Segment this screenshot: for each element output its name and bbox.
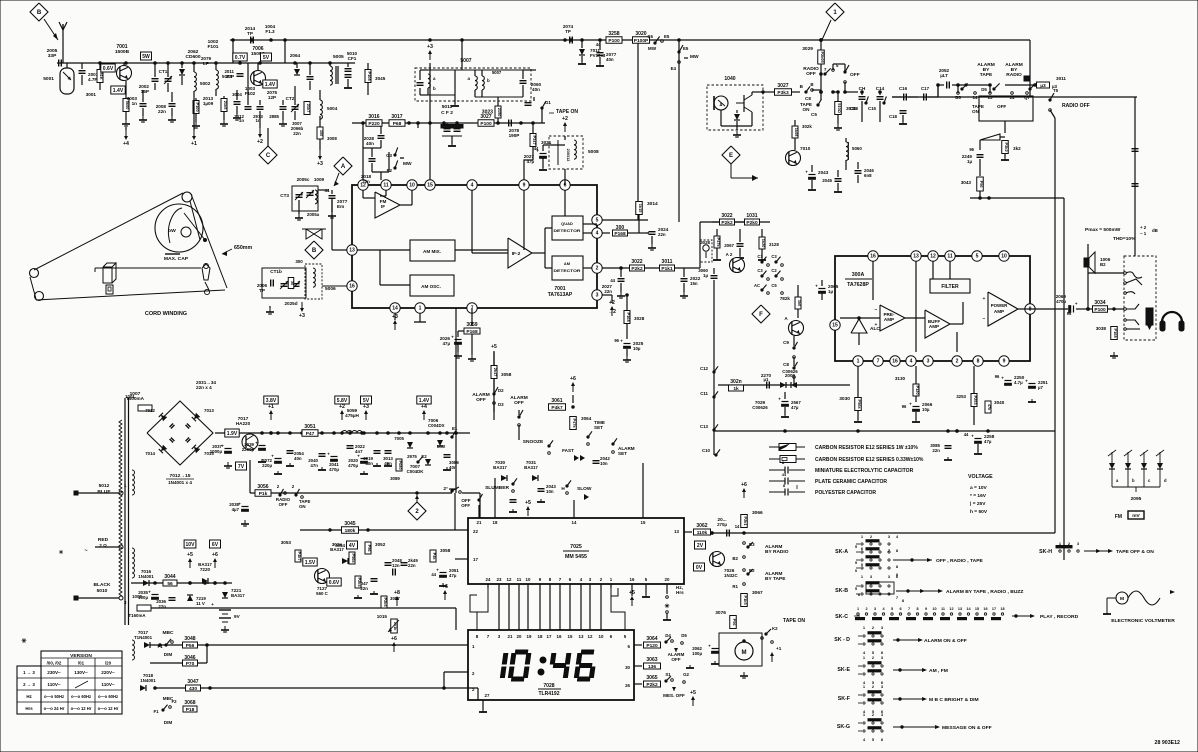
capacitor 2251 (1029, 383, 1036, 385)
resistor 3060 P47k vert (570, 417, 577, 430)
svg-text:THD=10%: THD=10% (1113, 236, 1136, 242)
wire supply row y433 (215, 432, 470, 434)
label 1.4V boxed 7006 (263, 80, 277, 88)
svg-text:B2: B2 (1100, 262, 1106, 267)
junction dots mic row (820, 91, 823, 94)
svg-text:Em: Em (337, 204, 344, 209)
svg-text:TAPE ON: TAPE ON (783, 618, 805, 624)
svg-text:16: 16 (557, 634, 562, 639)
svg-text:1: 1 (857, 359, 860, 365)
resistor 3056 P1k (255, 490, 271, 497)
svg-text:8: 8 (977, 359, 980, 365)
svg-text:22n x 4: 22n x 4 (196, 385, 212, 390)
svg-text:✳: ✳ (59, 549, 64, 556)
svg-text:3066: 3066 (752, 510, 763, 516)
svg-text:MW: MW (437, 444, 446, 449)
capacitor 2040 47n (319, 453, 326, 455)
svg-text:+: + (148, 590, 151, 595)
resistor 3038 (1111, 327, 1118, 340)
svg-text:3056: 3056 (257, 484, 268, 490)
capacitor 2005 33P (58, 60, 60, 67)
svg-text:C: C (266, 153, 271, 159)
svg-text:4V: 4V (349, 543, 356, 549)
svg-text:22n: 22n (658, 232, 666, 237)
capacitor 2077 40n top (597, 52, 604, 54)
svg-text:PLATE CERAMIC CAPACITOR: PLATE CERAMIC CAPACITOR (815, 479, 887, 485)
svg-text:6V: 6V (212, 542, 219, 548)
capacitor 2028 40n (378, 135, 385, 137)
wire psu y663 (150, 662, 207, 664)
svg-text:MW: MW (648, 46, 657, 51)
junction dots right rail (937, 84, 940, 87)
IC2 pin 1 (853, 356, 863, 366)
transistor 7001 (117, 66, 132, 81)
jack plug (1146, 308, 1153, 325)
svg-text:18: 18 (538, 634, 543, 639)
resistor 3058 mid (430, 550, 436, 562)
svg-text:30: 30 (625, 665, 630, 670)
svg-text:3130: 3130 (895, 376, 906, 381)
cord winding drum spoke (184, 213, 205, 240)
capacitor C16 (903, 94, 905, 101)
svg-text:3089: 3089 (390, 476, 400, 481)
svg-text:+6: +6 (741, 482, 747, 488)
coil 5060 (846, 142, 848, 147)
svg-text:dB: dB (1152, 228, 1158, 233)
svg-text:+2: +2 (257, 139, 263, 145)
resistor 3008 (317, 127, 323, 139)
svg-text:15n: 15n (690, 281, 698, 286)
capacitor 2042 10n (593, 460, 600, 462)
resistor 3045 entry (365, 70, 371, 83)
svg-text:T5: T5 (1053, 88, 1059, 93)
resistor 3047 430 (186, 685, 201, 691)
svg-text:/20: /20 (105, 661, 112, 666)
contacts alarm row right (1005, 84, 1035, 86)
svg-text:4: 4 (596, 231, 599, 237)
cord bracket part (103, 267, 112, 283)
resistor 3067 (741, 594, 748, 607)
wire right bus x1055 down (1054, 118, 1056, 533)
wire top supply rail y40 (230, 39, 1030, 41)
svg-text:1N4001: 1N4001 (140, 678, 156, 683)
motor enclosure (719, 633, 762, 666)
svg-text:+1: +1 (191, 141, 197, 147)
svg-text:BA317: BA317 (198, 562, 212, 567)
capacitor 2069 470u (1030, 308, 1068, 310)
svg-text:33P: 33P (48, 53, 57, 59)
cord left corner pulleys (30, 269, 39, 278)
svg-text:MINIATURE ELECTROLYTIC CAPAC: MINIATURE ELECTROLYTIC CAPACITOR (815, 468, 914, 474)
resistor 3030 P56k (855, 398, 862, 411)
svg-text:P2k4: P2k4 (357, 578, 362, 588)
svg-text:5008: 5008 (588, 149, 599, 155)
svg-text:P2k05: P2k05 (820, 51, 825, 63)
svg-text:2005c: 2005c (297, 177, 310, 182)
supply rail out of 7017 (258, 441, 268, 443)
svg-text:15: 15 (975, 607, 979, 611)
svg-text:C F 2: C F 2 (441, 110, 453, 116)
svg-text:10: 10 (932, 607, 936, 611)
svg-text:OFF: OFF (997, 104, 1006, 109)
IC2 pin 3 (923, 356, 933, 366)
cord right part (202, 264, 210, 280)
resistor 3016 P220 (366, 120, 382, 127)
node 2 diamond (408, 502, 426, 520)
svg-text:P347: P347 (532, 136, 537, 145)
wire pin16 top supply (872, 240, 874, 251)
wire mic rail to caps (845, 91, 858, 93)
svg-text:1k: 1k (733, 386, 739, 392)
svg-text:7013: 7013 (204, 408, 214, 413)
svg-text:S1: S1 (665, 672, 671, 677)
svg-text:P18: P18 (186, 707, 195, 713)
version table outer (41, 651, 122, 714)
label 5W boxed (141, 52, 152, 60)
svg-text:27P: 27P (226, 74, 234, 79)
label 1.4V boxed (111, 86, 125, 94)
wire psu secondary y583 (131, 582, 232, 584)
svg-text:+: + (620, 339, 623, 344)
svg-text:20: 20 (665, 577, 670, 582)
capacitor 2012 1n (245, 106, 252, 108)
IC1 pin6 inner wire (564, 190, 566, 216)
resistor 3064 P120 (644, 642, 661, 648)
IC1 pin 2 (592, 263, 602, 273)
capacitor 2250 47u (1005, 380, 1012, 382)
svg-text:21k5: 21k5 (223, 101, 228, 110)
svg-text:3065: 3065 (646, 675, 657, 681)
svg-text:BY RADIO: BY RADIO (765, 549, 789, 555)
wire diag to rail (821, 20, 831, 42)
wire IC1 bottom bus (455, 307, 457, 309)
svg-text:C3: C3 (771, 254, 777, 259)
switch C9 (793, 336, 795, 346)
supply +4 psu (423, 413, 425, 420)
wire vertical x679 (678, 40, 680, 222)
svg-text:15P: 15P (141, 89, 149, 94)
junction dots psu rows (159, 644, 162, 647)
capacitor 2043 (809, 174, 816, 176)
svg-text:POLYESTER CAPACITOR: POLYESTER CAPACITOR (815, 490, 876, 496)
svg-text:2: 2 (956, 359, 959, 365)
svg-text:P1k: P1k (259, 491, 268, 497)
svg-text:27: 27 (485, 693, 490, 698)
svg-text:3028: 3028 (700, 240, 710, 245)
svg-text:| = 25V: | = 25V (970, 501, 986, 507)
capacitor 2020 470u (361, 458, 368, 460)
volume wedge (980, 134, 1000, 140)
op-amp BUFF AMP (925, 310, 950, 338)
svg-text:b: b (433, 86, 436, 91)
svg-text:SK-G: SK-G (837, 724, 850, 730)
capacitor 2070 u1 (766, 382, 768, 389)
resistor 3028 head vert (714, 236, 720, 248)
svg-text:47µ: 47µ (527, 159, 535, 164)
capacitor 2038 4u7 (242, 506, 249, 508)
svg-text:1n: 1n (239, 118, 244, 123)
svg-text:8: 8 (916, 607, 918, 611)
transistor 7010 (786, 151, 801, 166)
cord winding pulley top (182, 192, 192, 202)
svg-text:3044: 3044 (164, 574, 175, 580)
svg-text:1001: 1001 (125, 394, 135, 399)
svg-text:16: 16 (892, 359, 898, 365)
svg-text:TA7613AP: TA7613AP (548, 292, 573, 298)
svg-text:−: − (875, 308, 878, 313)
svg-text:ON: ON (972, 109, 980, 114)
label 0.6V boxed (101, 64, 115, 72)
svg-text:3001: 3001 (86, 92, 97, 97)
wire top-right rail y97 (892, 96, 1137, 98)
transistor 7026 (710, 552, 725, 567)
IC1 pin9 inner wire (523, 190, 525, 250)
IC1 pin 10 (407, 180, 417, 190)
svg-text:~: ~ (84, 548, 87, 554)
svg-text:DETECTOR: DETECTOR (554, 269, 582, 273)
svg-text:18: 18 (1000, 607, 1004, 611)
tape head symbol (700, 240, 712, 262)
resistor 3153 (221, 99, 227, 112)
svg-text:3258: 3258 (608, 31, 619, 37)
resistor 3040 47k (985, 401, 991, 413)
svg-text:CF1: CF1 (348, 56, 357, 61)
supply +2 psu (341, 413, 343, 420)
svg-text:C5: C5 (771, 283, 777, 288)
svg-text:7220: 7220 (200, 567, 211, 572)
capacitor 3013 40n (385, 450, 392, 452)
svg-text:TA7628P: TA7628P (847, 282, 869, 288)
svg-text:1k0: 1k0 (797, 300, 802, 307)
wire tape head row y222 (700, 221, 770, 223)
svg-text:3045: 3045 (344, 521, 355, 527)
IC2 pin 8b (973, 356, 983, 366)
IC U300A TA7628P outline (835, 256, 1030, 361)
IC1 pin 3 (592, 290, 602, 300)
wire SK-D arrow (893, 639, 918, 641)
svg-text:Pmax = 500mW: Pmax = 500mW (1085, 227, 1121, 233)
bridge rectifier outline (147, 401, 213, 465)
svg-text:17: 17 (473, 557, 478, 562)
svg-text:1008: 1008 (132, 594, 142, 599)
resistor 3020 P100P (633, 37, 650, 44)
svg-text:MES. OFF: MES. OFF (663, 693, 685, 698)
resistor 3061 P4k7 (549, 404, 566, 411)
capacitor 2078 190P (508, 120, 510, 127)
diode 7029 pair (780, 382, 786, 388)
svg-text:CT3: CT3 (280, 193, 289, 198)
svg-text:136: 136 (648, 664, 656, 670)
supply +3 pin14 (394, 313, 396, 320)
svg-text:2067: 2067 (724, 243, 734, 248)
switch C8b (793, 357, 795, 366)
capacitor 2001 4.7P (79, 70, 86, 72)
wire 7026 emitter (714, 567, 716, 641)
transistor A preamp input (789, 321, 804, 336)
cord tension pointer (30, 277, 36, 299)
svg-text:ON: ON (299, 504, 306, 509)
svg-text:P56: P56 (732, 619, 737, 627)
junction dots supply row (261, 432, 264, 435)
svg-text:10n: 10n (600, 461, 608, 466)
svg-text:C8: C8 (783, 362, 789, 367)
resistor 3028 pin3 (624, 311, 630, 324)
coil 5004 with resistor (304, 102, 310, 115)
svg-text:+1: +1 (776, 646, 782, 651)
transformer 5007 dashed box (415, 68, 531, 101)
svg-text:10µ: 10µ (922, 407, 930, 412)
trimmer CT1 (165, 78, 172, 80)
capacitor 2049 22n (401, 562, 408, 564)
bridge diode 7014 (159, 445, 167, 453)
svg-text:/00, /02: /00, /02 (47, 661, 62, 666)
svg-text:SK-H: SK-H (1039, 549, 1052, 555)
wire pin7 down x472 (471, 308, 473, 313)
resistor 3057 (381, 596, 387, 608)
IC1 pin 11 (381, 180, 391, 190)
svg-text:BA317: BA317 (493, 465, 507, 470)
svg-text:LP: LP (203, 61, 209, 66)
svg-text:12: 12 (588, 634, 593, 639)
svg-text:b: b (487, 78, 490, 83)
label 2V boxed (695, 541, 706, 549)
svg-text:11: 11 (947, 254, 953, 260)
svg-text:15: 15 (832, 323, 838, 329)
capacitor 2018 22n (369, 158, 376, 160)
wire bottom bus y533 to SK area (712, 532, 1055, 534)
wire rail drop x462 (461, 40, 463, 70)
electronic voltmeter (1116, 592, 1128, 604)
op-amp FM IF (375, 192, 400, 218)
switch tape-on G1 (541, 107, 543, 109)
wire long horizontal y431 (714, 430, 1055, 432)
svg-text:QUAD: QUAD (561, 221, 573, 226)
jack socket dashed box (1124, 256, 1156, 340)
svg-text:MAX. CAP: MAX. CAP (164, 256, 189, 262)
wire y198 to bus (970, 197, 1064, 199)
svg-text:3043: 3043 (961, 180, 972, 185)
switch tape on motor (744, 637, 760, 639)
coil 5001 (60, 68, 74, 94)
svg-text:2: 2 (865, 607, 867, 611)
IC2 inner wires (915, 261, 917, 352)
resistor 301 P1k1 (660, 265, 675, 271)
capacitor 2037 1000u (225, 448, 232, 450)
junction dots IF rail (362, 122, 365, 125)
svg-text:300A: 300A (852, 272, 865, 278)
svg-text:C10: C10 (702, 448, 711, 453)
wire x1135 down to jack (1134, 97, 1136, 256)
antenna (62, 24, 64, 63)
wire E arrow (730, 164, 732, 178)
resistor 3027 P3k3 (775, 89, 792, 96)
headphones icon (1162, 312, 1182, 322)
svg-text:C004DK: C004DK (407, 469, 425, 474)
svg-text:OFF , RADIO , TAPE: OFF , RADIO , TAPE (936, 558, 984, 564)
svg-text:OFF: OFF (279, 502, 288, 507)
svg-text:22n: 22n (360, 586, 368, 591)
svg-text:E1: E1 (452, 426, 458, 431)
svg-text:10: 10 (409, 183, 415, 189)
resistor 2059 P168 (471, 313, 473, 326)
capacitor 2047 22n (371, 578, 378, 580)
svg-text:VERSION: VERSION (70, 653, 92, 659)
svg-text:* = 16V: * = 16V (970, 493, 987, 499)
svg-text:3: 3 (927, 359, 930, 365)
svg-text:P2k2: P2k2 (631, 266, 643, 272)
svg-text:AM OSC.: AM OSC. (421, 284, 441, 289)
svg-text:VOLTAGE: VOLTAGE (968, 474, 993, 480)
svg-text:P120: P120 (646, 643, 658, 649)
label 0.7V boxed (233, 53, 247, 61)
svg-text:40n: 40n (606, 57, 614, 62)
boxed 300 pin5 (613, 230, 628, 236)
svg-text:1 → 3: 1 → 3 (23, 670, 35, 675)
svg-text:9V: 9V (234, 614, 241, 619)
label 5V boxed (261, 53, 272, 61)
wire pin2 out y268 (597, 267, 700, 269)
svg-text:3034: 3034 (1094, 300, 1105, 306)
svg-text:CH: CH (859, 86, 866, 91)
svg-text:C13: C13 (850, 106, 859, 111)
svg-text:5004: 5004 (327, 106, 338, 111)
svg-text:5005: 5005 (333, 54, 344, 60)
node B diamond top-left (30, 3, 48, 21)
svg-text:15: 15 (641, 520, 646, 525)
wire SK-G arrow (893, 726, 935, 728)
supply +1 psu (270, 413, 272, 420)
node F diamond (752, 305, 770, 323)
wire psu to pin2a (443, 672, 445, 688)
svg-text:3064: 3064 (646, 636, 657, 642)
wire 7026 collector (720, 533, 722, 552)
svg-text:7025: 7025 (570, 544, 582, 550)
supply +6 time set (572, 385, 574, 392)
svg-text:ALARM BY TAPE , RADIO , BUZ: ALARM BY TAPE , RADIO , BUZZ (946, 589, 1023, 595)
svg-text:5010: 5010 (97, 588, 108, 594)
svg-text:+: + (1074, 302, 1079, 305)
svg-text:E5: E5 (683, 46, 689, 51)
svg-text:1N32C: 1N32C (724, 573, 738, 578)
supply +3 psu (365, 413, 367, 420)
resistor 1031 head (745, 219, 760, 225)
junction dots RF chain (99, 62, 102, 65)
diode 7003 (294, 69, 300, 75)
svg-text:5V: 5V (363, 398, 370, 404)
svg-text:22: 22 (473, 529, 478, 534)
svg-text:OFF: OFF (476, 397, 486, 403)
svg-text:SNOOZE: SNOOZE (523, 439, 544, 445)
bridge diode 7013 (192, 413, 200, 421)
capacitor on x1135 (1132, 148, 1139, 150)
wire SK-F arrow (893, 698, 922, 700)
svg-text:+: + (451, 335, 454, 340)
svg-text:/01: /01 (78, 661, 85, 666)
wire rail drop x285 (284, 40, 286, 63)
svg-text:+5: +5 (491, 344, 497, 350)
resistor 3029 (818, 50, 825, 64)
svg-text:B2: B2 (732, 556, 738, 561)
svg-text:Hrs: Hrs (676, 590, 684, 595)
svg-text:26: 26 (625, 683, 630, 688)
capacitor 2063 10n (538, 488, 545, 490)
pin1 stub (419, 313, 421, 322)
svg-text:C16: C16 (899, 86, 908, 91)
wire alarm rail stubs (937, 85, 939, 97)
version table label col (17, 666, 41, 714)
capacitor 2567 47u (782, 401, 789, 403)
svg-text:3022: 3022 (631, 259, 642, 265)
